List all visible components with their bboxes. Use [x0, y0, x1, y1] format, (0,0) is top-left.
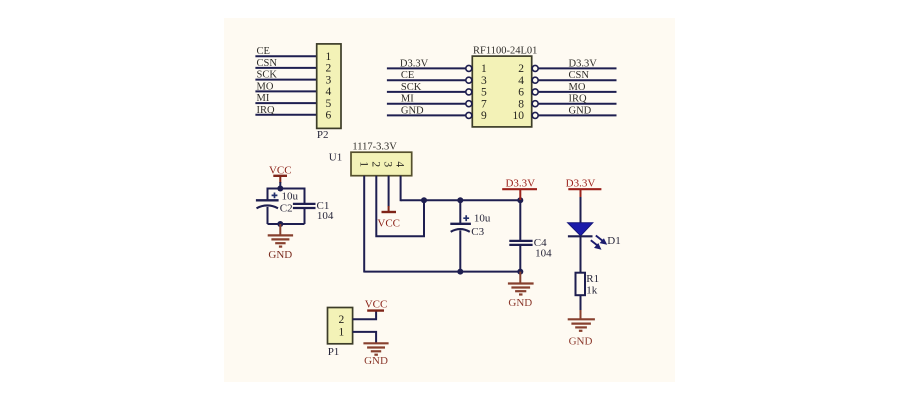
- wire to C2 top: [267, 188, 269, 201]
- LED light arrow 1: [596, 236, 607, 245]
- value 104 (C4): [535, 247, 552, 259]
- U1 pin number 3 (rotated): [381, 161, 393, 167]
- pin number 6: [518, 87, 524, 99]
- svg-text:4: 4: [393, 161, 405, 167]
- svg-text:R1: R1: [586, 273, 599, 285]
- svg-text:GND: GND: [569, 105, 592, 116]
- power label VCC (P1): [365, 298, 388, 310]
- pin8 circle: [532, 101, 538, 107]
- ground symbol (C2/C1): [268, 224, 293, 247]
- svg-text:MI: MI: [257, 93, 270, 104]
- svg-text:104: 104: [317, 210, 334, 222]
- capacitor C1 top plate: [293, 203, 316, 205]
- svg-text:SCK: SCK: [401, 82, 422, 93]
- capacitor C3 curved plate: [451, 229, 470, 232]
- wire pin8 to IRQ: [539, 103, 617, 105]
- capacitor C3 value 10u: [474, 213, 491, 225]
- svg-text:IRQ: IRQ: [257, 105, 276, 116]
- capacitor C2 curved plate: [257, 205, 279, 208]
- power label D3.3V (D1): [566, 177, 596, 189]
- svg-text:3: 3: [326, 74, 332, 86]
- svg-text:GND: GND: [508, 297, 532, 309]
- pin2 circle: [532, 65, 538, 71]
- svg-text:MI: MI: [401, 94, 414, 105]
- capacitor C1 bottom plate: [293, 207, 316, 209]
- wire pin4 to CSN: [539, 79, 617, 81]
- svg-text:104: 104: [535, 247, 552, 259]
- capacitor C4 top plate: [509, 240, 532, 242]
- pin10 circle: [532, 112, 538, 118]
- net label MO: [257, 81, 274, 92]
- connector P2 body: [317, 44, 341, 128]
- svg-text:7: 7: [481, 99, 487, 111]
- pin5 circle: [466, 89, 472, 95]
- net label MI (left pin7): [401, 94, 414, 105]
- part title RF1100-24L01: [473, 46, 537, 57]
- wire P1 pin2 to VCC: [353, 312, 377, 320]
- P2 pin number 5: [326, 98, 332, 110]
- wire MO to P2 pin4: [255, 90, 316, 92]
- power label GND (C2/C1): [268, 249, 292, 261]
- svg-text:1117-3.3V: 1117-3.3V: [352, 141, 397, 152]
- wire VCC node horizontal: [268, 188, 305, 190]
- LED D1 cathode bar: [568, 235, 593, 237]
- svg-text:1: 1: [481, 63, 487, 75]
- wire U1 pin3 down: [388, 176, 390, 207]
- wire ground rail y=271.6: [364, 271, 520, 273]
- wire pin6 to MO: [539, 91, 617, 93]
- svg-text:D1: D1: [607, 235, 620, 247]
- wire GND node horizontal: [268, 223, 305, 225]
- power label VCC (C2): [269, 165, 292, 177]
- U1 pin number 4 (rotated): [393, 161, 405, 167]
- LED D1 triangle: [568, 223, 593, 236]
- pin3 circle: [466, 77, 472, 83]
- svg-text:1k: 1k: [586, 284, 598, 296]
- pin number 2: [518, 63, 524, 75]
- junction at C3 bottom: [457, 269, 463, 275]
- wire pin10 to GND: [539, 114, 617, 116]
- P2 pin number 6: [326, 110, 332, 122]
- pin number 8: [518, 99, 524, 111]
- designator U1: [329, 152, 342, 164]
- power symbol VCC (P1): [367, 309, 384, 311]
- power label D3.3V (C4): [505, 177, 535, 189]
- net label IRQ: [257, 105, 276, 116]
- svg-text:MO: MO: [257, 81, 274, 92]
- wire IRQ to P2 pin6: [255, 114, 316, 116]
- junction GND node: [277, 221, 283, 227]
- power label GND (R1): [569, 335, 593, 347]
- svg-text:9: 9: [481, 110, 487, 122]
- wire U1 pin4 down: [400, 176, 402, 202]
- svg-text:3: 3: [381, 161, 393, 167]
- P2 pin number 1: [326, 51, 332, 63]
- P1 pin number 2: [339, 314, 345, 326]
- svg-text:10u: 10u: [282, 191, 299, 203]
- svg-text:1: 1: [357, 161, 369, 167]
- pin number 4: [518, 75, 524, 87]
- net label D3.3V (right pin2): [569, 58, 598, 69]
- wire SCK to P2 pin3: [255, 79, 316, 81]
- net label SCK (left pin5): [401, 82, 422, 93]
- wire MI to pin7: [387, 103, 466, 105]
- svg-text:IRQ: IRQ: [569, 94, 588, 105]
- pin number 7: [481, 99, 487, 111]
- svg-text:3: 3: [481, 75, 487, 87]
- svg-text:6: 6: [326, 110, 332, 122]
- capacitor C2 plus sign: [272, 193, 278, 199]
- pin7 circle: [466, 101, 472, 107]
- svg-text:VCC: VCC: [365, 298, 388, 310]
- svg-text:2: 2: [518, 63, 524, 75]
- ground symbol (R1): [568, 310, 595, 331]
- wire D3.3V to pin1: [387, 67, 466, 69]
- ground symbol (C4): [508, 272, 534, 295]
- net label SCK: [257, 70, 278, 81]
- wire MI to P2 pin5: [255, 102, 316, 104]
- wire CSN to P2 pin2: [255, 67, 316, 69]
- connector P1 body: [328, 308, 353, 344]
- net label D3.3V (left pin1): [400, 58, 429, 69]
- svg-text:8: 8: [518, 99, 524, 111]
- capacitor C2 top plate: [256, 199, 279, 201]
- designator D1: [607, 235, 620, 247]
- wire C3 top: [459, 200, 461, 224]
- power symbol D3.3V bar: [502, 189, 537, 200]
- svg-text:D3.3V: D3.3V: [400, 58, 429, 69]
- svg-text:P2: P2: [317, 129, 329, 141]
- pin1 circle: [466, 65, 472, 71]
- wire C1 bottom: [304, 208, 306, 224]
- designator R1: [586, 273, 599, 285]
- net label CE (left pin3): [401, 70, 414, 81]
- wire U1 pin2 down: [376, 176, 424, 237]
- net label MI: [257, 93, 270, 104]
- designator C4: [534, 237, 547, 249]
- net label CE: [257, 46, 270, 57]
- svg-text:GND: GND: [569, 335, 593, 347]
- junction at C4/D3.3V top: [517, 197, 523, 203]
- svg-text:4: 4: [518, 75, 524, 87]
- wire C4 top: [519, 200, 521, 241]
- power symbol VCC at U1 pin3: [382, 206, 397, 212]
- U1 pin number 2 (rotated): [369, 161, 381, 167]
- designator P1: [328, 346, 340, 358]
- wire C2 bottom: [267, 207, 269, 224]
- svg-text:5: 5: [481, 87, 487, 99]
- power label GND (C4): [508, 297, 532, 309]
- svg-text:U1: U1: [329, 152, 342, 164]
- pin number 9: [481, 110, 487, 122]
- pin number 10: [513, 110, 525, 122]
- power symbol VCC bar: [273, 176, 287, 183]
- IC U? body: [472, 56, 531, 127]
- svg-text:C2: C2: [280, 203, 293, 215]
- svg-text:D3.3V: D3.3V: [569, 58, 598, 69]
- capacitor C3 top plate: [450, 223, 471, 225]
- svg-text:GND: GND: [364, 355, 388, 367]
- wire pin2 to D3.3V: [539, 67, 617, 69]
- svg-text:GND: GND: [401, 105, 424, 116]
- part title 1117-3.3V: [352, 141, 397, 152]
- wire D3.3V to LED anode: [580, 197, 582, 223]
- svg-text:C3: C3: [471, 226, 484, 238]
- svg-text:2: 2: [339, 314, 345, 326]
- svg-text:CE: CE: [401, 70, 414, 81]
- resistor R1 body: [576, 273, 586, 296]
- pin number 1: [481, 63, 487, 75]
- wire R1 to GND: [580, 295, 582, 311]
- svg-text:CE: CE: [257, 46, 270, 57]
- svg-text:1: 1: [326, 51, 332, 63]
- svg-text:MO: MO: [569, 82, 586, 93]
- P2 pin number 3: [326, 74, 332, 86]
- wire output rail y=200: [401, 199, 521, 201]
- power label VCC (U1): [377, 218, 400, 230]
- LED light arrow 2: [591, 240, 602, 250]
- net label MO (right pin6): [569, 82, 586, 93]
- designator P2: [317, 129, 329, 141]
- svg-text:2: 2: [369, 161, 381, 167]
- svg-text:SCK: SCK: [257, 70, 278, 81]
- capacitor C2 value 10u: [282, 191, 299, 203]
- value 1k (R1): [586, 284, 598, 296]
- net label GND (left pin9): [401, 105, 424, 116]
- svg-text:VCC: VCC: [377, 218, 400, 230]
- schematic canvas background: [224, 18, 675, 382]
- wire SCK to pin5: [387, 91, 466, 93]
- junction at C4 bottom: [517, 269, 523, 275]
- wire GND to pin9: [387, 114, 466, 116]
- wire CE to pin3: [387, 79, 466, 81]
- svg-text:D3.3V: D3.3V: [566, 177, 596, 189]
- pin4 circle: [532, 77, 538, 83]
- svg-text:1: 1: [339, 327, 345, 339]
- regulator U1 body: [351, 152, 412, 176]
- pin number 3: [481, 75, 487, 87]
- wire P1 pin1 to GND: [353, 332, 377, 343]
- svg-text:2: 2: [326, 63, 332, 75]
- P2 pin number 2: [326, 63, 332, 75]
- svg-text:10u: 10u: [474, 213, 491, 225]
- capacitor C4 bottom plate: [509, 244, 532, 246]
- svg-text:GND: GND: [268, 249, 292, 261]
- wire CE to P2 pin1: [255, 55, 316, 57]
- net label IRQ (right pin8): [569, 94, 588, 105]
- pin9 circle: [466, 112, 472, 118]
- designator C3: [471, 226, 484, 238]
- junction at pin2 feedback: [421, 197, 427, 203]
- svg-text:P1: P1: [328, 346, 340, 358]
- wire C3 bottom: [459, 230, 461, 271]
- wire C4 bottom: [519, 245, 521, 272]
- junction VCC node: [277, 186, 283, 192]
- value 104 (C1): [317, 210, 334, 222]
- capacitor C3 plus sign: [463, 215, 469, 221]
- junction at C3 top: [457, 197, 463, 203]
- net label CSN: [257, 58, 278, 69]
- power symbol D3.3V bar (D1): [568, 189, 601, 198]
- net label GND (right pin10): [569, 105, 592, 116]
- svg-text:5: 5: [326, 98, 332, 110]
- designator C2: [280, 203, 293, 215]
- power label GND (P1): [364, 355, 388, 367]
- designator C1: [317, 200, 330, 212]
- svg-text:RF1100-24L01: RF1100-24L01: [473, 46, 537, 57]
- svg-text:CSN: CSN: [257, 58, 278, 69]
- U1 pin number 1 (rotated): [357, 161, 369, 167]
- svg-text:CSN: CSN: [569, 70, 590, 81]
- svg-text:4: 4: [326, 86, 332, 98]
- net label CSN (right pin4): [569, 70, 590, 81]
- P1 pin number 1: [339, 327, 345, 339]
- P2 pin number 4: [326, 86, 332, 98]
- wire VCC stem: [279, 182, 281, 189]
- svg-text:10: 10: [513, 110, 525, 122]
- pin number 5: [481, 87, 487, 99]
- wire LED cathode to R1: [580, 236, 582, 272]
- wire to C1 top: [304, 188, 306, 204]
- svg-text:D3.3V: D3.3V: [505, 177, 535, 189]
- pin6 circle: [532, 89, 538, 95]
- ground symbol (P1): [363, 343, 388, 354]
- wire U1 pin1 down: [363, 176, 365, 273]
- svg-text:6: 6: [518, 87, 524, 99]
